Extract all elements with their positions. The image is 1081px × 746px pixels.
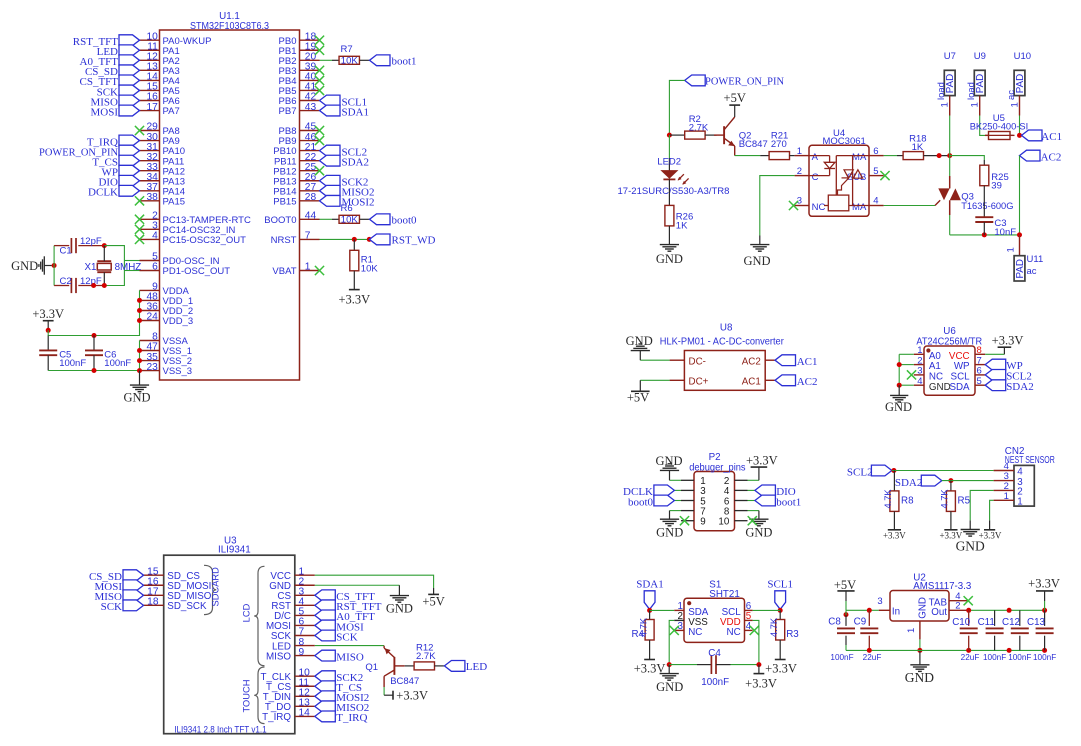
junction SCL2 node — [891, 468, 896, 473]
svg-text:GND: GND — [626, 334, 653, 348]
svg-text:9: 9 — [700, 517, 705, 528]
net label MISO (U1 left) — [90, 95, 139, 108]
junction +3.3V node — [46, 328, 51, 333]
wire R26 to GND — [668, 226, 670, 245]
svg-text:BK250-400-SI: BK250-400-SI — [970, 122, 1028, 133]
svg-text:MA: MA — [852, 152, 867, 163]
pad U7 (load) — [936, 51, 956, 116]
svg-text:U11: U11 — [1027, 254, 1044, 265]
capacitor C10 22uF — [952, 610, 979, 662]
svg-text:PC15-OSC32_OUT: PC15-OSC32_OUT — [163, 235, 247, 246]
wire SCL1 to S1 — [753, 609, 781, 611]
svg-text:2: 2 — [797, 166, 802, 177]
svg-text:boot1: boot1 — [392, 56, 417, 68]
svg-text:2.7K: 2.7K — [689, 122, 709, 133]
capacitor C11 100nF — [978, 610, 1007, 662]
net label WP (U1 left) — [102, 165, 140, 178]
wire P2 pin5 — [674, 500, 681, 502]
svg-text:PA7: PA7 — [163, 106, 180, 117]
pad U11 (ac) — [1014, 254, 1043, 281]
svg-text:AC2: AC2 — [742, 357, 761, 368]
svg-text:100nF: 100nF — [830, 653, 853, 662]
svg-text:1K: 1K — [676, 220, 688, 231]
svg-text:SCL1: SCL1 — [767, 579, 793, 591]
net label SCK (U3 left) — [101, 600, 144, 613]
capacitor C8 100nF — [828, 615, 855, 662]
net label RST_WD — [370, 234, 436, 247]
wire U6 A0/A1/GND tie — [897, 354, 914, 387]
net label MISO2 (U1 right) — [320, 185, 375, 198]
svg-text:+5V: +5V — [834, 578, 856, 592]
wire +3.3V to VDD pins — [48, 290, 142, 338]
power GND (U2) — [905, 650, 934, 685]
wire VSS ground rail — [48, 341, 142, 374]
wire SDA2 to R5 — [950, 481, 952, 491]
svg-text:T_IRQ: T_IRQ — [262, 712, 291, 723]
svg-text:SDA1: SDA1 — [636, 579, 664, 591]
resistor R7 10K — [339, 44, 359, 67]
svg-text:AC1: AC1 — [797, 356, 818, 368]
wire R8 to +3.3V — [893, 511, 895, 529]
svg-text:10K: 10K — [341, 56, 359, 67]
svg-text:+5V: +5V — [724, 91, 746, 105]
svg-text:SDA2: SDA2 — [895, 477, 923, 489]
svg-text:BC847: BC847 — [390, 676, 419, 687]
svg-text:+3.3V: +3.3V — [745, 676, 777, 690]
wire R12 to LED label — [435, 665, 445, 667]
regulator U2 AMS1117-3.3 — [877, 573, 971, 640]
wire Q2 collector to +5V — [734, 105, 736, 117]
svg-text:C: C — [812, 172, 819, 183]
svg-text:C4: C4 — [708, 648, 721, 659]
svg-text:STM32F103C8T6.3: STM32F103C8T6.3 — [190, 21, 269, 32]
power +3.3V (VDD rail) — [32, 307, 64, 330]
svg-text:ILI9341: ILI9341 — [218, 545, 251, 556]
svg-text:GND: GND — [929, 382, 951, 393]
svg-text:GND: GND — [656, 680, 683, 694]
svg-text:38: 38 — [146, 192, 158, 203]
net label RST_TFT (U3 right) — [315, 600, 382, 613]
svg-text:100nF: 100nF — [1033, 653, 1056, 662]
wire S1 VDD to +3.3V rail — [753, 620, 759, 664]
net label boot1 — [370, 55, 417, 68]
wire SDA2 to CN2 pin3 — [942, 480, 994, 482]
net label SCL2 (U6) — [985, 370, 1032, 383]
svg-text:1: 1 — [1005, 247, 1016, 252]
svg-text:VDD_3: VDD_3 — [163, 316, 194, 327]
svg-text:100nF: 100nF — [983, 653, 1006, 662]
svg-text:GND: GND — [656, 526, 683, 540]
optocoupler U4 MOC3061 — [795, 128, 884, 217]
svg-text:LED2: LED2 — [657, 157, 681, 168]
svg-text:MOC3061: MOC3061 — [823, 136, 866, 147]
net label WP (U6) — [985, 359, 1023, 372]
resistor R6 10K — [339, 203, 359, 226]
svg-text:PD1-OSC_OUT: PD1-OSC_OUT — [163, 266, 231, 277]
svg-text:6: 6 — [152, 262, 158, 273]
svg-text:PB7: PB7 — [279, 106, 297, 117]
wire U8 DC- to GND — [640, 351, 669, 360]
wire CN2 pin2 to GND — [970, 490, 993, 529]
junction XTAL1 node — [102, 243, 107, 248]
svg-text:NC: NC — [688, 627, 702, 638]
wire Q1 emitter to +3.3V — [383, 687, 385, 695]
power +3.3V (R3) — [765, 660, 797, 676]
wire P2 pin2 to +3.3V — [748, 467, 759, 480]
no-connect P2 pin10 — [748, 516, 757, 525]
svg-text:1: 1 — [1017, 497, 1022, 508]
net label boot0 — [370, 214, 418, 227]
power +3.3V (R8, small) — [883, 530, 906, 541]
net label SDA2 (U6) — [985, 380, 1034, 393]
net label POWER_ON_PIN — [685, 75, 784, 88]
svg-text:TOUCH: TOUCH — [242, 680, 252, 713]
svg-text:4.7K: 4.7K — [940, 489, 950, 509]
wire R7 to boot1 — [360, 59, 370, 61]
net label A0_TFT (U3 right) — [315, 610, 375, 623]
wire AC2 vertical — [1019, 156, 1021, 235]
svg-text:Q1: Q1 — [365, 662, 378, 673]
power +5V (U3) — [422, 594, 444, 608]
svg-text:+3.3V: +3.3V — [979, 531, 1002, 541]
wire +5V to In — [844, 601, 879, 617]
svg-text:17-21SURC/S530-A3/TR8: 17-21SURC/S530-A3/TR8 — [618, 186, 730, 197]
wire GND bottom rail — [846, 648, 1047, 653]
svg-text:C1: C1 — [60, 245, 72, 256]
wire P2 pin1 to GND — [670, 471, 682, 481]
svg-text:SDCARD: SDCARD — [211, 567, 221, 607]
no-connect S1 pin3 — [670, 626, 679, 635]
net label AC2 (U8) — [775, 375, 817, 388]
resistor R21 270 — [769, 130, 789, 159]
resistor R3 4.7K — [769, 610, 799, 640]
wire U8 DC+ to +5V — [640, 380, 669, 391]
net label MISO (U3 left) — [94, 590, 143, 603]
triac Q3 T1635-600G — [935, 176, 1014, 215]
svg-text:+5V: +5V — [422, 595, 444, 609]
svg-text:LED: LED — [466, 661, 487, 673]
svg-text:+3.3V: +3.3V — [746, 454, 778, 468]
junction GND rail — [917, 648, 922, 653]
svg-text:HLK-PM01 - AC-DC-converter: HLK-PM01 - AC-DC-converter — [660, 336, 785, 347]
svg-text:18: 18 — [147, 597, 159, 608]
wire SDA1 to S1 — [650, 609, 675, 611]
svg-text:debuger_pins: debuger_pins — [689, 462, 745, 473]
power GND (P2 bottom right) — [745, 519, 772, 539]
svg-text:GND: GND — [743, 254, 770, 268]
no-connect U2 TAB — [964, 596, 973, 605]
sensor S1 SHT21 — [674, 580, 752, 643]
power GND (U6) — [885, 385, 912, 414]
wire XTAL top to PD0 — [104, 246, 139, 286]
svg-text:MISO: MISO — [336, 651, 364, 663]
net label MOSI2 (U1 right) — [320, 195, 375, 208]
svg-text:14: 14 — [299, 708, 311, 719]
net label A0_TFT (U1 left) — [80, 55, 140, 68]
svg-text:+3.3V: +3.3V — [765, 661, 797, 675]
capacitor C6 100nF — [85, 336, 131, 371]
svg-text:C10: C10 — [952, 617, 971, 628]
svg-text:100nF: 100nF — [104, 358, 131, 369]
junction GND-crystal node — [52, 263, 57, 268]
svg-text:6: 6 — [873, 146, 878, 157]
power +3.3V (P2) — [746, 454, 778, 468]
wire U2 output rail — [966, 608, 1047, 613]
capacitor C4 100nF — [669, 648, 759, 688]
svg-text:PAD: PAD — [1015, 259, 1026, 278]
power GND (S1) — [656, 665, 683, 694]
wire BOOT0 to R6 — [320, 218, 340, 220]
svg-text:AC1: AC1 — [742, 377, 761, 388]
svg-text:U8: U8 — [720, 322, 733, 333]
resistor R18 1K — [903, 134, 926, 160]
svg-text:DC-: DC- — [689, 357, 706, 368]
resistor R4 4.7K — [631, 610, 654, 640]
svg-text:BC847: BC847 — [739, 139, 768, 150]
junctions XTAL2 node — [91, 283, 107, 288]
power +3.3V (S1 rail) — [745, 665, 777, 691]
wire S1 VSS to GND rail — [669, 620, 674, 664]
svg-text:44: 44 — [305, 211, 317, 222]
net label T_IRQ (U1 left) — [87, 135, 140, 148]
svg-text:In: In — [892, 606, 900, 617]
capacitor C3 10nF — [975, 217, 1016, 238]
svg-text:+3.3V: +3.3V — [32, 307, 64, 321]
svg-text:+3.3V: +3.3V — [883, 531, 906, 541]
svg-text:PB15: PB15 — [273, 196, 296, 207]
svg-text:17: 17 — [146, 102, 158, 113]
svg-text:P2: P2 — [709, 452, 721, 463]
power +3.3V (U6) — [992, 334, 1024, 348]
svg-text:C13: C13 — [1027, 617, 1046, 628]
svg-text:SHT21: SHT21 — [709, 589, 740, 600]
svg-text:NRST: NRST — [271, 235, 297, 246]
power +5V (U8) — [627, 390, 650, 404]
svg-text:DCLK: DCLK — [88, 187, 118, 199]
svg-text:1: 1 — [906, 628, 917, 633]
svg-text:C9: C9 — [854, 616, 867, 627]
capacitor C2 12pF — [54, 276, 104, 293]
wire R21 to U4 pin1 — [790, 155, 795, 157]
power +3.3V (CN2, small) — [979, 530, 1002, 541]
IC U6 AT24C256M/TR EEPROM — [914, 326, 985, 395]
no-connect U6 pin3 — [907, 370, 916, 379]
svg-text:+3.3V: +3.3V — [1028, 577, 1060, 591]
svg-text:T1635-600G: T1635-600G — [961, 201, 1013, 212]
svg-text:R3: R3 — [786, 629, 799, 640]
net label DCLK (P2) — [623, 485, 674, 498]
svg-text:ac: ac — [1006, 90, 1017, 100]
transistor Q2 BC847 — [714, 117, 768, 156]
power +3.3V (R4) — [634, 660, 666, 676]
wire NRST with junctions — [320, 237, 372, 242]
svg-text:AMS1117-3.3: AMS1117-3.3 — [913, 581, 972, 592]
svg-text:R6: R6 — [341, 203, 353, 214]
capacitor C12 100nF — [1002, 610, 1031, 662]
svg-text:R5: R5 — [958, 496, 971, 507]
wire P2 pin3 — [674, 489, 681, 491]
svg-text:10: 10 — [718, 517, 729, 528]
svg-text:AC1: AC1 — [1041, 131, 1062, 143]
wire node to R25 — [950, 156, 985, 166]
svg-text:GND: GND — [656, 252, 683, 266]
net label MOSI2 (U3 right) — [315, 691, 370, 704]
power +5V (U2) — [834, 578, 856, 601]
net label SCK (U1 left) — [97, 85, 140, 98]
svg-text:C12: C12 — [1002, 617, 1020, 628]
crystal X1 8MHZ — [85, 246, 142, 286]
net label SCL1 (S1) — [767, 579, 793, 610]
svg-text:10K: 10K — [341, 215, 359, 226]
wire C3 to bottom rail — [983, 222, 985, 235]
junction VDD rail — [756, 662, 761, 667]
wire POWER_ON_PIN down — [669, 80, 684, 135]
svg-text:100nF: 100nF — [1008, 653, 1031, 662]
pad U9 (load) — [966, 51, 986, 116]
net label MOSI (U1 left) — [90, 105, 139, 118]
svg-text:C11: C11 — [978, 617, 995, 628]
svg-text:C8: C8 — [828, 616, 841, 627]
wire AC1 node down to U11 — [1005, 235, 1019, 256]
wire P2 pin4 — [748, 489, 755, 491]
no-connect U4 pin3 — [789, 201, 798, 210]
svg-text:12pF: 12pF — [80, 276, 102, 287]
svg-text:4.7K: 4.7K — [883, 489, 893, 509]
svg-text:PA15: PA15 — [163, 196, 186, 207]
svg-text:10nF: 10nF — [994, 227, 1016, 238]
svg-text:X1: X1 — [85, 262, 97, 273]
svg-text:10K: 10K — [361, 264, 379, 275]
resistor R25 39 — [980, 165, 1009, 191]
net label MISO2 (U3 right) — [315, 701, 370, 714]
svg-text:AC2: AC2 — [1041, 151, 1062, 163]
power GND (sideways, crystal) — [11, 256, 52, 274]
power +3.3V (Q1, sideways) — [384, 689, 428, 703]
svg-text:C2: C2 — [60, 276, 72, 287]
svg-text:RST_WD: RST_WD — [392, 235, 436, 247]
wire Q1 base to R12 — [405, 665, 414, 667]
svg-text:GND: GND — [123, 391, 150, 405]
fuse U5 BK250-400-SI — [970, 113, 1028, 140]
svg-text:VBAT: VBAT — [272, 266, 296, 277]
svg-text:boot0: boot0 — [628, 496, 654, 508]
no-connect U4 pin5 — [880, 171, 889, 180]
svg-text:LCD: LCD — [242, 603, 252, 622]
junction VSS rail — [667, 662, 672, 667]
svg-text:100nF: 100nF — [59, 358, 86, 369]
wire CN2 pin1 to +3.3V — [990, 500, 994, 530]
svg-text:270: 270 — [771, 139, 787, 150]
wire U4 pin6 to R18 — [884, 155, 904, 157]
junction LED2/R2 node — [667, 133, 672, 138]
AC-DC module U8 HLK-PM01 — [660, 322, 785, 390]
wire R5 to +3.3V — [950, 511, 952, 529]
svg-text:load: load — [966, 82, 977, 100]
LED LED2 17-21SURC/S530-A3/TR8 — [618, 157, 730, 197]
IC U1.1 STM32F103C8T6.3 MCU — [140, 11, 320, 380]
wire node to LED2 — [668, 135, 670, 171]
svg-text:7: 7 — [305, 231, 311, 242]
svg-text:boot1: boot1 — [776, 496, 801, 508]
svg-text:R8: R8 — [901, 496, 914, 507]
net label SCK2 (U1 right) — [320, 175, 369, 188]
capacitor C1 12pF — [54, 236, 104, 256]
wire Q3 top — [949, 156, 951, 176]
net label SCL2 (U1 right) — [320, 145, 368, 158]
svg-text:R4: R4 — [631, 629, 644, 640]
svg-text:A: A — [812, 152, 819, 163]
wire crystal left rail — [53, 246, 55, 286]
svg-text:GND: GND — [386, 601, 413, 615]
svg-text:5: 5 — [873, 166, 878, 177]
svg-text:100nF: 100nF — [701, 677, 729, 688]
svg-text:BOOT0: BOOT0 — [264, 215, 296, 226]
net label LED (Q1) — [444, 661, 487, 674]
pad U10 (ac) — [1006, 51, 1031, 116]
svg-text:GND: GND — [885, 400, 912, 414]
no-connect X marks on U1 unused pins — [135, 36, 324, 276]
svg-text:Out: Out — [931, 607, 947, 618]
svg-text:+3.3V: +3.3V — [396, 689, 428, 703]
power +3.3V (U2 out) — [1028, 577, 1060, 611]
net label RST_TFT (U1 left) — [73, 35, 140, 48]
junction AC1 node — [1017, 133, 1022, 138]
wire U6 VCC to +3.3V — [985, 347, 1004, 354]
svg-text:U7: U7 — [944, 51, 956, 62]
net label CS_TFT (U1 left) — [79, 75, 139, 88]
net label SCK (U3 right) — [315, 630, 358, 643]
svg-text:GND: GND — [655, 454, 682, 468]
net label SCL2 (CN2) — [847, 465, 892, 478]
wire U4 pin2 to GND — [760, 176, 795, 245]
net label AC1 — [1022, 130, 1063, 143]
svg-text:load: load — [936, 82, 947, 100]
net label POWER_ON_PIN (U1 left) — [39, 145, 140, 158]
wire P2 pin6 — [748, 500, 755, 502]
net label boot0 (P2) — [628, 495, 674, 508]
wire R4 to +3.3V — [649, 640, 651, 660]
svg-text:boot0: boot0 — [392, 215, 418, 227]
net label T_CS (U1 left) — [92, 155, 139, 168]
svg-text:3: 3 — [877, 596, 882, 607]
power +3.3V (below R1) — [338, 290, 370, 307]
junction SDA1 node — [647, 608, 652, 613]
svg-text:U9: U9 — [974, 51, 986, 62]
svg-text:43: 43 — [305, 102, 317, 113]
net label DIO (P2) — [755, 485, 796, 498]
net label LED (U1 left) — [97, 45, 140, 58]
wire R2 to Q2 base — [705, 134, 717, 136]
svg-text:4.7K: 4.7K — [769, 617, 779, 637]
no-connect P2 pin9 — [680, 516, 689, 525]
transistor Q1 BC847 — [365, 646, 419, 687]
junction SDA2 node — [948, 478, 953, 483]
svg-text:24: 24 — [146, 312, 158, 323]
svg-text:4: 4 — [152, 231, 158, 242]
wire R3 to +3.3V — [779, 640, 781, 660]
net label MOSI (U3 right) — [315, 620, 364, 633]
net label SCL1 (U1 right) — [320, 95, 368, 108]
svg-text:R7: R7 — [341, 44, 353, 55]
svg-text:+3.3V: +3.3V — [338, 293, 370, 307]
svg-text:SCL2: SCL2 — [847, 466, 873, 478]
resistor R26 1K — [665, 205, 693, 231]
svg-text:GND: GND — [745, 526, 772, 540]
junction SCL1 node — [778, 608, 783, 613]
svg-text:9: 9 — [299, 647, 305, 658]
resistor R5 4.7K — [940, 489, 971, 512]
net label SDA1 (S1) — [636, 579, 664, 610]
